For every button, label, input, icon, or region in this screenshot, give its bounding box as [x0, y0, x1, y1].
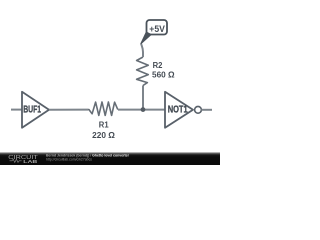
wire R2 to +5V flag: [141, 44, 143, 58]
resistor R1 zigzag: [88, 102, 118, 115]
footer bar: [0, 152, 220, 165]
buffer BUF1 triangle: [22, 92, 49, 128]
inverter NOT1 bubble: [195, 106, 202, 113]
wire R1 to node A: [118, 109, 143, 111]
wire node A to NOT1: [143, 109, 165, 111]
svg-text:http://circuitlab.com/c/k27abc: http://circuitlab.com/c/k27abcs: [46, 157, 92, 162]
svg-text:BUF1: BUF1: [23, 104, 41, 115]
power flag +5V tail: [141, 32, 151, 43]
node A junction dot: [141, 107, 146, 112]
inverter NOT1 triangle: [165, 92, 193, 128]
svg-text:+5V: +5V: [149, 24, 165, 35]
svg-text:NOT1: NOT1: [168, 104, 188, 115]
svg-text:R1: R1: [99, 120, 109, 130]
svg-text:LAB: LAB: [23, 159, 38, 165]
resistor R2 zigzag: [137, 57, 149, 86]
wire node A up to R2: [142, 86, 144, 110]
svg-text:220 Ω: 220 Ω: [92, 130, 115, 140]
wire input stub to BUF1: [11, 109, 22, 111]
footer logo waveform: [10, 159, 22, 162]
svg-text:560 Ω: 560 Ω: [152, 70, 175, 80]
power flag +5V box: [147, 20, 168, 35]
wire BUF1 output to R1: [49, 109, 88, 111]
wire NOT1 output stub: [201, 109, 212, 111]
